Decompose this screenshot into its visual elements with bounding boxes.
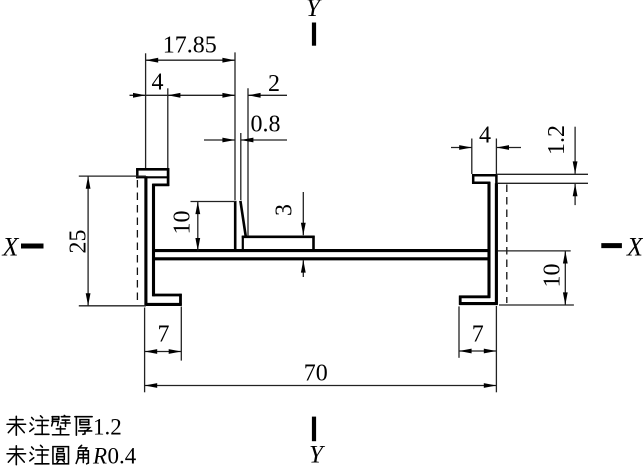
profile: web bottom edge [152, 257, 490, 260]
extension line 4-right right [495, 139, 497, 175]
svg-text:X: X [2, 233, 20, 262]
dimension line 10-left [197, 202, 199, 251]
profile: left wall outer face [144, 176, 147, 305]
svg-text:0.4: 0.4 [108, 444, 137, 467]
profile: left lip left edge [136, 168, 139, 178]
dimension line 4-right [451, 147, 472, 149]
arrowhead 17.85 right [222, 58, 235, 63]
arrowhead 3 up [301, 260, 306, 273]
arrowhead 1.2 up [573, 184, 578, 197]
profile: inner flange top edge [242, 236, 315, 239]
extension line for 17.85/4 left [145, 53, 147, 168]
extension line 7-left outer [144, 308, 146, 393]
arrowhead 7-right right [484, 349, 497, 354]
note glyph 注 (line2) [30, 445, 49, 463]
dashed line at right side [506, 185, 508, 304]
arrowhead 0.8 right (outside) [241, 138, 254, 143]
dashed line at left lip edge [136, 180, 138, 304]
note glyph 注 (line1) [30, 416, 49, 434]
dimension line 2 (right part) [248, 94, 287, 96]
dimension line 4-right (right part) [496, 147, 521, 149]
note glyph 未 (line2) [7, 446, 25, 465]
note glyph 角 (line2) [76, 445, 88, 463]
svg-text:2: 2 [268, 71, 280, 97]
svg-text:3: 3 [272, 204, 298, 216]
profile: right foot left edge [459, 296, 462, 305]
profile: left lip top edge [136, 168, 169, 171]
extension line 1.2 top [496, 173, 588, 175]
arrowhead 17.85 left [146, 58, 159, 63]
Y axis dash top [312, 23, 316, 46]
dimension line 3 upper segment [302, 192, 304, 235]
arrowhead 4-right right (outside) [496, 145, 509, 150]
extension line 7-right left [458, 306, 460, 357]
profile: right foot top edge [459, 295, 490, 298]
arrowhead 4 right (outside) [168, 93, 181, 98]
extension line for 4 right [167, 88, 169, 168]
arrowhead 2 right (outside) [248, 93, 261, 98]
arrowhead 3 down [301, 223, 306, 236]
profile: left lip bottom edge [136, 176, 169, 178]
arrowhead 10-left bottom [195, 238, 200, 251]
profile: center fin slanted right face [240, 201, 245, 236]
note glyph 未 (line1) [7, 416, 25, 435]
arrowhead 10-left top [195, 202, 200, 215]
profile: left foot top edge [152, 294, 181, 297]
svg-text:R: R [92, 444, 107, 467]
svg-text:70: 70 [304, 361, 328, 387]
profile: inner flange right edge [312, 236, 315, 251]
profile: left foot bottom edge [145, 303, 182, 306]
extension line for 17.85/2/0.8 at fin left face [234, 52, 236, 200]
arrowhead 25 top [86, 176, 91, 189]
arrowhead 7-right left [459, 349, 472, 354]
arrowhead 4 left (outside) [133, 93, 146, 98]
dimension line 70 [145, 385, 497, 387]
profile: left foot right edge [179, 294, 182, 306]
dimension line 0.8 (left part) [204, 139, 235, 141]
X axis dash left [21, 244, 44, 249]
arrowhead 70 right [484, 383, 497, 388]
extension line for 2 right [247, 88, 249, 236]
X axis dash right [601, 243, 622, 248]
profile: left lip right edge [167, 168, 170, 186]
dimension line 7-left [145, 351, 182, 353]
svg-text:25: 25 [66, 230, 92, 254]
profile: web top edge [152, 249, 490, 252]
arrowhead 4-right left (outside) [459, 145, 472, 150]
arrowhead 2 left (outside) [222, 93, 235, 98]
svg-text:7: 7 [158, 322, 170, 348]
arrowhead 25 bottom [86, 293, 91, 306]
note glyph 壁 (line1) [52, 415, 70, 434]
profile: right lip left edge [472, 174, 475, 184]
svg-text:Y: Y [309, 442, 326, 467]
svg-text:4: 4 [479, 123, 491, 149]
dimension line 1.2 lower segment [574, 184, 576, 205]
dimension line 17.85 [146, 59, 235, 61]
extension line 7-right/70 right [495, 306, 497, 392]
extension line 25 top [79, 175, 146, 177]
svg-text:10: 10 [170, 211, 196, 235]
svg-text:17.85: 17.85 [163, 33, 217, 59]
profile: right lip top edge [472, 174, 497, 177]
dimension line 25 [87, 176, 89, 306]
Y axis dash bottom [312, 417, 316, 442]
extension line 4-right left [471, 139, 473, 175]
svg-text:0.8: 0.8 [251, 112, 281, 138]
arrowhead 10-right bottom [563, 292, 568, 305]
profile: center fin left face [234, 201, 237, 252]
profile: left wall inner face [152, 184, 155, 296]
profile: inner flange left edge [242, 236, 244, 251]
arrowhead 0.8 left (outside) [222, 138, 235, 143]
profile: right lip right edge [495, 174, 498, 184]
dimension line 7-right [459, 350, 496, 352]
profile: right lip bottom edge [472, 182, 490, 185]
svg-text:10: 10 [540, 264, 566, 288]
note glyph 圆 (line2) [53, 447, 69, 464]
profile: left step bottom edge [152, 184, 169, 187]
dimension line 0.8 (right part) [241, 139, 287, 141]
dimension line 1.2 upper segment [574, 127, 576, 174]
note glyph 厚 (line1) [75, 417, 92, 435]
svg-text:X: X [626, 233, 643, 262]
arrowhead 7-left left [145, 349, 158, 354]
profile: right foot bottom edge [459, 302, 498, 305]
svg-text:7: 7 [472, 322, 484, 348]
profile: right wall inner face [487, 182, 490, 298]
dimension line 10-right [564, 251, 566, 305]
arrowhead 7-left right [169, 349, 182, 354]
arrowhead 1.2 down [573, 161, 578, 174]
profile: right wall outer face [495, 183, 498, 304]
arrowhead 70 left [145, 383, 158, 388]
svg-text:Y: Y [306, 0, 323, 22]
svg-text:1.2: 1.2 [544, 125, 570, 155]
extension line 10-left top [191, 201, 236, 203]
extension line 7-left inner [180, 307, 182, 361]
arrowhead 10-right top [563, 251, 568, 264]
extension line for 0.8 right [240, 133, 242, 200]
svg-text:4: 4 [152, 70, 164, 96]
extension line 10-right top [498, 250, 571, 252]
extension line 1.2 bottom [498, 182, 589, 184]
svg-text:1.2: 1.2 [93, 415, 122, 440]
extension line 25 bottom [79, 305, 146, 307]
dimension line 4-left and 2 (left part) [130, 94, 236, 96]
dimension line 3 lower segment [302, 260, 304, 277]
extension line 10-right bottom [499, 304, 574, 306]
